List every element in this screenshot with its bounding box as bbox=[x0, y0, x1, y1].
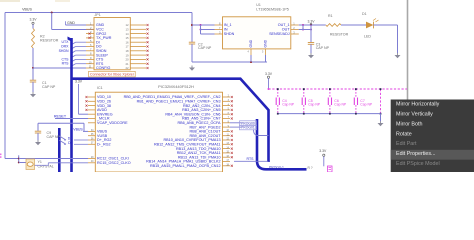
svg-text:R1: R1 bbox=[328, 14, 333, 18]
svg-text:Connector for Xbee Xplorer: Connector for Xbee Xplorer bbox=[90, 73, 135, 77]
svg-text:VCAP_VDDCORE: VCAP_VDDCORE bbox=[97, 121, 128, 125]
svg-text:CAP NP: CAP NP bbox=[42, 85, 56, 89]
svg-text:22: 22 bbox=[125, 66, 129, 70]
svg-text:Cap NP: Cap NP bbox=[360, 103, 373, 107]
svg-text:RESISTOR: RESISTOR bbox=[330, 33, 349, 37]
svg-text:Cap NP: Cap NP bbox=[334, 103, 347, 107]
svg-text:3.3V: 3.3V bbox=[75, 80, 83, 84]
svg-text:IN: IN bbox=[224, 28, 228, 32]
svg-text:CAP NP: CAP NP bbox=[316, 46, 330, 50]
svg-text:CAP NP: CAP NP bbox=[198, 46, 212, 50]
svg-text:PIC32MX440F512H: PIC32MX440F512H bbox=[158, 84, 194, 89]
svg-text:Edit PSpice Model: Edit PSpice Model bbox=[396, 161, 440, 167]
svg-text:RB15_AN15_PMALL_PMA2_OCFB_CN12: RB15_AN15_PMALL_PMA2_OCFB_CN12 bbox=[150, 164, 221, 168]
svg-text:D1: D1 bbox=[362, 12, 367, 16]
svg-text:SENSE/ADJ: SENSE/ADJ bbox=[269, 32, 290, 36]
svg-text:Mirror Both: Mirror Both bbox=[396, 121, 422, 127]
svg-text:RC15_OSC2_CLKO: RC15_OSC2_CLKO bbox=[97, 161, 131, 165]
svg-text:3.3V: 3.3V bbox=[319, 149, 327, 153]
svg-text:R ?: R ? bbox=[308, 166, 313, 170]
svg-text:VBUS: VBUS bbox=[73, 128, 83, 132]
svg-text:Cap NP: Cap NP bbox=[308, 103, 321, 107]
svg-text:Mirror Horizontally: Mirror Horizontally bbox=[396, 102, 440, 108]
svg-text:Edit Properties...: Edit Properties... bbox=[396, 151, 436, 157]
svg-text:GND: GND bbox=[264, 39, 268, 47]
svg-text:PROG01: PROG01 bbox=[241, 126, 255, 130]
svg-text:Edit Part: Edit Part bbox=[396, 141, 417, 147]
svg-text:RTS: RTS bbox=[247, 157, 255, 161]
svg-text:Mirror Vertically: Mirror Vertically bbox=[396, 112, 433, 118]
svg-text:IN_1: IN_1 bbox=[224, 23, 232, 27]
svg-text:CAP NP: CAP NP bbox=[47, 135, 61, 139]
svg-text:PROG0-1: PROG0-1 bbox=[269, 165, 284, 169]
svg-text:OUT_1: OUT_1 bbox=[278, 23, 290, 27]
svg-text:D-_RG2: D-_RG2 bbox=[97, 143, 111, 147]
svg-text:SHDN: SHDN bbox=[59, 49, 69, 53]
svg-text:3.3V: 3.3V bbox=[30, 18, 38, 22]
svg-text:LED: LED bbox=[364, 35, 371, 39]
svg-text:IC1: IC1 bbox=[97, 86, 103, 90]
svg-text:Rotate: Rotate bbox=[396, 131, 412, 137]
svg-text:JP1: JP1 bbox=[95, 13, 101, 17]
svg-text:CONFIG: CONFIG bbox=[96, 66, 110, 70]
svg-text:GND: GND bbox=[249, 39, 253, 47]
svg-text:GND: GND bbox=[67, 21, 75, 25]
svg-text:RTS: RTS bbox=[62, 62, 70, 66]
svg-text:OUT: OUT bbox=[282, 28, 291, 32]
svg-text:Y1: Y1 bbox=[38, 160, 42, 164]
svg-text:VBUS: VBUS bbox=[22, 8, 32, 12]
svg-text:SHDN: SHDN bbox=[224, 32, 235, 36]
svg-text:3.3V: 3.3V bbox=[308, 20, 316, 24]
svg-text:Cap NP: Cap NP bbox=[282, 103, 295, 107]
svg-text:3.3V: 3.3V bbox=[265, 72, 273, 76]
svg-text:RESISTOR: RESISTOR bbox=[40, 39, 59, 43]
svg-text:LT1965EMS8E-1P5: LT1965EMS8E-1P5 bbox=[256, 8, 289, 12]
